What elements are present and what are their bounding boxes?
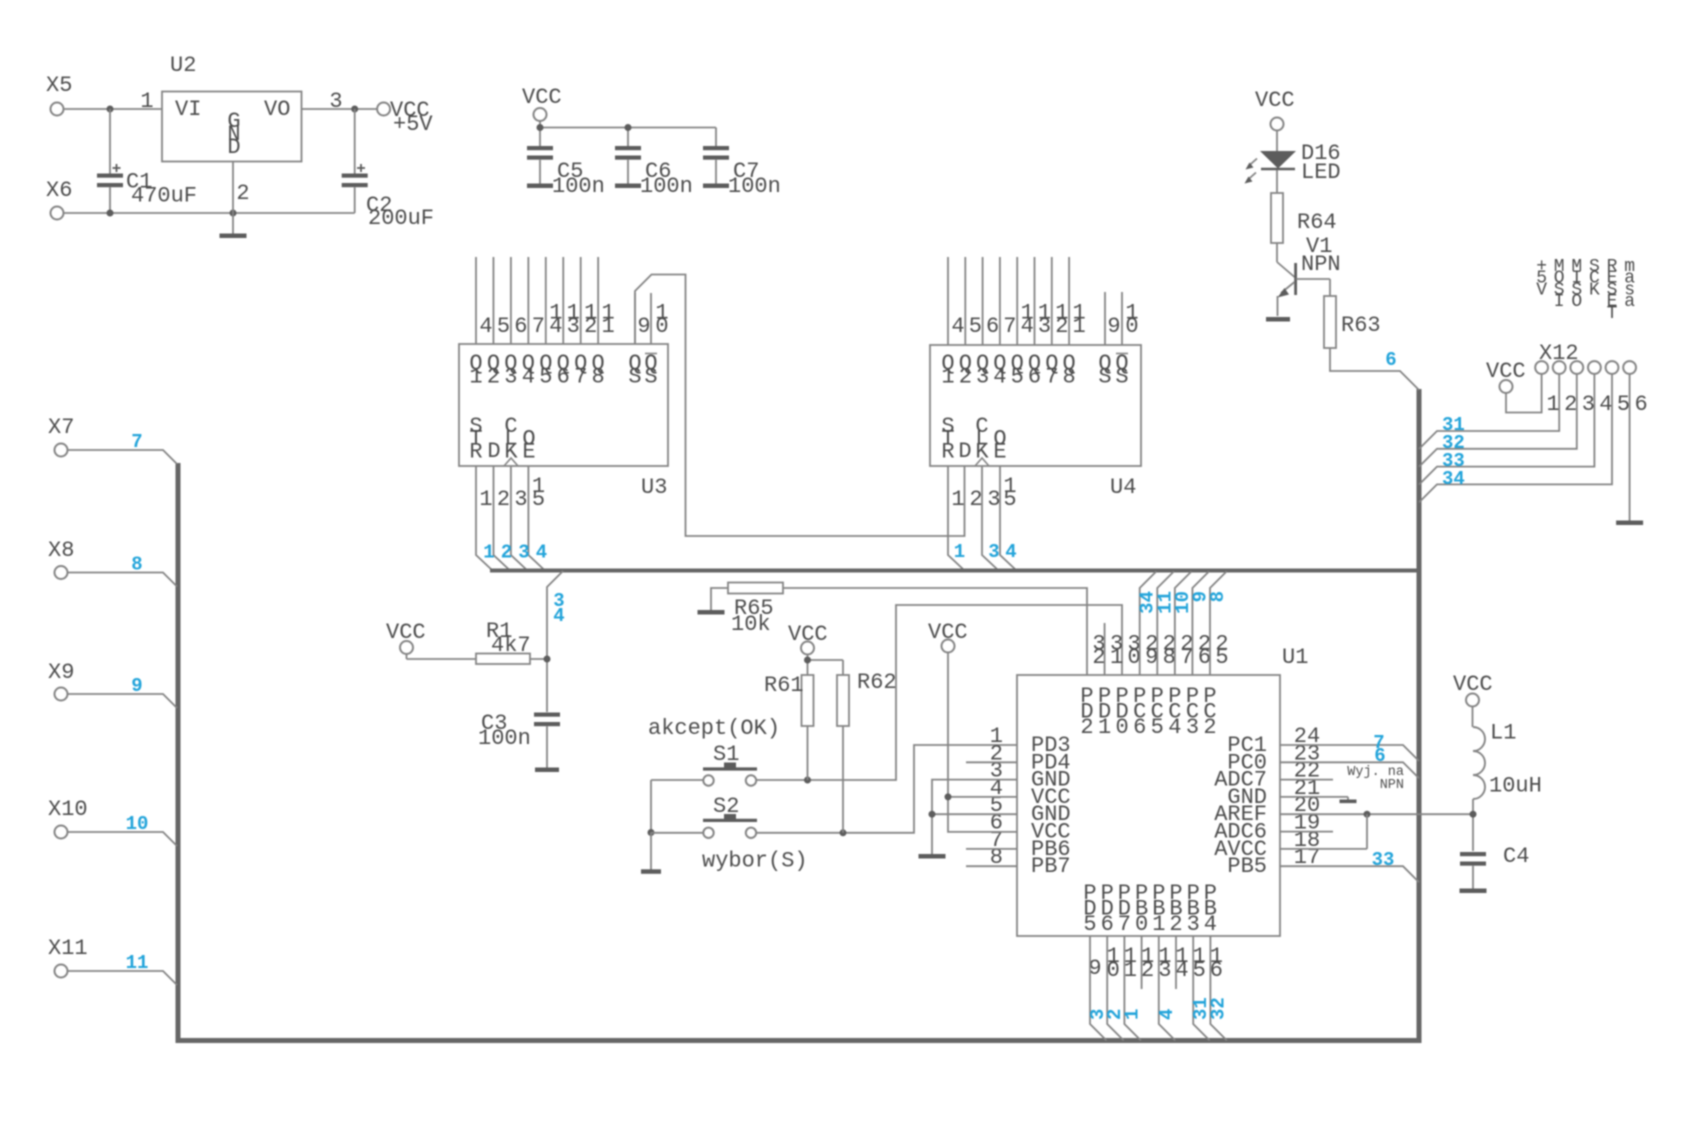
R62 label [857, 670, 897, 695]
svg-text:4: 4 [553, 605, 564, 627]
net label 2 at U3 [501, 542, 512, 564]
svg-text:3: 3 [514, 487, 527, 512]
wire X12 pin 3 net 32 [1419, 374, 1577, 467]
U1 pin 19 stub [1280, 831, 1333, 833]
U3 pin number 9 [637, 314, 650, 339]
pin number 1 of U2 [140, 89, 153, 114]
switch S2 label [713, 794, 739, 819]
svg-text:2: 2 [1141, 958, 1154, 983]
power port VCC at R61 [788, 622, 828, 660]
U4 CLK edge marker [975, 458, 989, 466]
svg-text:V: V [1536, 280, 1547, 300]
svg-text:wybor(S): wybor(S) [702, 849, 808, 874]
wire U1 pin 28 to bus [1157, 572, 1174, 676]
wire X8 to bus net 8 [68, 573, 178, 587]
wire X12 pin 6 to ground [1629, 374, 1631, 521]
U4 pin number 9 [1107, 314, 1120, 339]
svg-text:PB5: PB5 [1227, 854, 1267, 879]
svg-text:10: 10 [126, 813, 149, 835]
net label 10 at X10 [126, 813, 149, 835]
net label 34 at X12 [1442, 468, 1465, 490]
net label 11 at U1 top [1154, 591, 1176, 614]
label wybor(S) [702, 849, 808, 874]
net label 1 at U1 bottom [1121, 1009, 1143, 1020]
connector X6 [46, 178, 72, 220]
U1 right pin numbers [1294, 724, 1320, 870]
svg-text:2: 2 [1564, 392, 1577, 417]
wire U1 pin 27 to bus [1175, 572, 1192, 676]
wire VCC to X12 pin 1 [1506, 374, 1542, 413]
inductor L1 [1473, 727, 1485, 799]
wire R64 to V1 collector [1277, 243, 1295, 277]
svg-text:VO: VO [264, 97, 290, 122]
U4 bottom pin numbers [951, 474, 1016, 512]
svg-text:3: 3 [1038, 314, 1051, 339]
net label 2 at U1 bottom [1104, 1009, 1126, 1020]
wire U1 PC0 to bus net 6 [1280, 762, 1419, 778]
svg-text:7: 7 [1118, 912, 1131, 937]
C6 label [645, 159, 671, 184]
svg-text:R62: R62 [857, 670, 897, 695]
svg-text:R64: R64 [1297, 210, 1337, 235]
wire U1 PB5 to bus net 33 [1280, 866, 1419, 882]
svg-text:1: 1 [1110, 645, 1123, 670]
capacitor C3 [534, 713, 560, 769]
U3 label QS-bar [644, 351, 657, 390]
svg-text:3: 3 [988, 541, 999, 563]
switch S2 [703, 814, 757, 838]
svg-text:1: 1 [1546, 392, 1559, 417]
wire U1 pin 11 to bottom bus [1124, 936, 1141, 1041]
svg-text:X9: X9 [48, 660, 74, 685]
svg-text:3: 3 [987, 487, 1000, 512]
net label 4 at C3 tap [553, 605, 564, 627]
V1 type NPN [1301, 252, 1341, 277]
wire U3 STR to bus [476, 466, 492, 570]
svg-text:0: 0 [1128, 645, 1141, 670]
label Wyj. na NPN [1347, 765, 1404, 793]
X12 pin labels +5V MOSI MISO SCK RESET masa [1536, 257, 1635, 324]
U4 label QS [1098, 351, 1111, 390]
svg-text:LED: LED [1301, 160, 1341, 185]
U1 top pin names [1080, 684, 1216, 740]
svg-text:NPN: NPN [1380, 778, 1404, 793]
net label 33 at PB5 [1372, 849, 1395, 871]
wire U1 pin 13 to bottom bus [1159, 936, 1176, 1041]
junction S1/R61 [804, 777, 811, 784]
junction R1/C3 [544, 656, 551, 663]
svg-text:X10: X10 [48, 797, 88, 822]
bus horizontal middle [490, 569, 1422, 573]
svg-text:4: 4 [1599, 392, 1612, 417]
resistor R62 [837, 675, 849, 726]
svg-text:5: 5 [969, 314, 982, 339]
wire U1 AREF to L1/C4 node [1280, 813, 1473, 815]
resistor R64 [1271, 193, 1283, 243]
wire R63 to bus net 6 [1330, 348, 1419, 390]
svg-text:4: 4 [951, 314, 964, 339]
resistor R63 [1324, 296, 1336, 348]
wire bus tap to R1/C3 node [547, 571, 563, 712]
wire R1 to node [530, 658, 547, 660]
bus vertical right [1417, 389, 1422, 1040]
svg-text:100n: 100n [728, 174, 781, 199]
U2 pin name GND [227, 109, 240, 160]
net label 1 at U3 [483, 542, 494, 564]
resistor R61 [802, 675, 814, 726]
U1 top pin numbers [1092, 632, 1228, 671]
wire U3 QS to U4 D [635, 275, 965, 537]
U4 body [930, 345, 1141, 466]
svg-text:4: 4 [1156, 1009, 1178, 1020]
wire U4 STR to bus [948, 466, 964, 570]
wire U1 pin 25 to bus [1210, 572, 1227, 676]
svg-text:D: D [958, 439, 971, 464]
junction L1/C4/AREF [1470, 811, 1477, 818]
svg-text:2: 2 [1169, 912, 1182, 937]
U3 top pin numbers [479, 301, 614, 340]
U3 pin QS stub wire [634, 293, 636, 344]
svg-text:8: 8 [1163, 645, 1176, 670]
U1 body [1017, 675, 1280, 936]
L1 label [1490, 721, 1516, 746]
U3 pin QS' stub wire [650, 293, 652, 344]
svg-text:3: 3 [567, 314, 580, 339]
wire U1 pin 15 to bottom bus [1193, 936, 1210, 1041]
D16 label [1301, 141, 1341, 166]
wire X7 to bus net 7 [68, 450, 178, 464]
small ground at U1 pin 21 [1340, 800, 1357, 804]
wire AVCC branch [1280, 814, 1367, 849]
C3 value 100n [478, 726, 531, 751]
wire U3 CLK to bus [511, 466, 527, 570]
junction S1/S2 ground leg [648, 829, 655, 836]
svg-text:4: 4 [1021, 314, 1034, 339]
net label 9 at U1 top [1189, 591, 1211, 602]
wire U1 GND pins 3,5 [932, 780, 1017, 855]
X12 label [1539, 341, 1579, 366]
svg-text:7: 7 [574, 365, 587, 390]
svg-text:4: 4 [993, 365, 1006, 390]
junction GND/pin5 [929, 811, 936, 818]
svg-text:I: I [1554, 292, 1565, 312]
junction VO/C2 [351, 106, 358, 113]
pin number 3 of U2 [329, 89, 342, 114]
connector X5 [46, 73, 72, 116]
U4 pin QS' stub wire [1121, 292, 1123, 345]
power port VCC at U1 [928, 620, 968, 660]
svg-text:6: 6 [1101, 912, 1114, 937]
svg-text:1: 1 [140, 89, 153, 114]
U1 pin 8 stub [966, 865, 1017, 867]
U2 pin name VI [175, 97, 201, 122]
wire S1 left to ground leg [651, 780, 703, 833]
connector X10 [48, 797, 88, 839]
svg-text:VCC: VCC [1255, 88, 1295, 113]
power port VCC at R1 [386, 620, 426, 659]
svg-text:9: 9 [1145, 645, 1158, 670]
svg-text:5: 5 [497, 314, 510, 339]
svg-text:3: 3 [976, 365, 989, 390]
svg-text:2: 2 [959, 365, 972, 390]
svg-text:0: 0 [1107, 958, 1120, 983]
U4 input labels STR D CLK OE [941, 414, 1006, 464]
net label 11 at X11 [126, 952, 149, 974]
svg-text:4: 4 [536, 542, 547, 564]
svg-text:U2: U2 [170, 53, 196, 78]
net label 32 at X12 [1442, 432, 1465, 454]
V1 label [1306, 234, 1332, 259]
wire X11 to bus net 11 [68, 971, 178, 985]
svg-text:4: 4 [1204, 912, 1217, 937]
U1 pin 14 stub [1175, 936, 1177, 989]
svg-text:2: 2 [1203, 715, 1216, 740]
svg-text:S: S [628, 365, 641, 390]
wire U1 pin 21 GND [1280, 797, 1348, 800]
svg-text:akcept(OK): akcept(OK) [648, 716, 780, 741]
svg-text:470uF: 470uF [131, 184, 197, 209]
power port VCC at X12 [1486, 359, 1526, 393]
U4 label QS-bar [1115, 351, 1128, 390]
wire U3 D to bus [494, 466, 510, 570]
U3 pin number 10 [655, 301, 668, 340]
wire X10 to bus net 10 [68, 832, 178, 846]
wires U4 outputs Q1-Q8 [948, 257, 1069, 345]
X12 pin numbers [1546, 392, 1647, 417]
switch S1 [703, 763, 757, 786]
svg-text:R61: R61 [764, 673, 804, 698]
junction VCC/C5 [537, 124, 544, 131]
svg-text:3: 3 [504, 365, 517, 390]
resistor R65 [728, 583, 783, 594]
capacitor C1 [97, 109, 123, 213]
wire X12 pin 4 net 33 [1419, 374, 1594, 485]
wire V1 emitter to ground [1277, 296, 1279, 316]
wire VCC to R1 [407, 658, 477, 660]
power port VCC for C5-C7 [522, 85, 562, 121]
ground below S1/S2 [641, 869, 661, 874]
net label 6 at PC0 [1374, 745, 1385, 767]
R65 label [734, 596, 774, 621]
svg-text:L1: L1 [1490, 721, 1516, 746]
svg-text:U4: U4 [1110, 475, 1136, 500]
net label 7 at X7 [131, 431, 142, 453]
ground below C6 [615, 184, 641, 189]
wire ground leg down [650, 833, 652, 871]
svg-text:100n: 100n [552, 174, 605, 199]
U1 bottom pin numbers [1088, 944, 1223, 983]
svg-text:1: 1 [1121, 1009, 1143, 1020]
U3 label QS [628, 351, 641, 390]
svg-text:6: 6 [1028, 365, 1041, 390]
svg-text:34: 34 [1442, 468, 1465, 490]
svg-text:5: 5 [1151, 715, 1164, 740]
junction VCC/R61 [804, 657, 811, 664]
capacitor C5 [527, 146, 553, 184]
power port VCC +5V [377, 98, 433, 137]
U1 pin 2 stub [966, 761, 1017, 763]
LED D16 [1245, 151, 1297, 184]
C7 label [733, 159, 759, 184]
wire U2 GND pin 2 [232, 162, 234, 235]
svg-text:1: 1 [1072, 314, 1085, 339]
U4 pin QS stub wire [1104, 292, 1106, 345]
U1 left pin numbers [990, 724, 1003, 870]
wire U4 OE to bus [1000, 466, 1016, 570]
svg-text:5: 5 [1083, 912, 1096, 937]
capacitor C6 [615, 146, 641, 184]
svg-text:U3: U3 [641, 475, 667, 500]
R61 label [764, 673, 804, 698]
svg-text:3: 3 [1582, 392, 1595, 417]
wire U2 VO to VCC [302, 108, 378, 110]
U1 pin 31 stub [1104, 623, 1106, 675]
U3 output labels Q1-Q8 [469, 351, 604, 390]
C5 value 100n [552, 174, 605, 199]
svg-text:6: 6 [1374, 745, 1385, 767]
U4 output labels Q1-Q8 [941, 351, 1075, 390]
C7 value 100n [728, 174, 781, 199]
wire L1 to node [1472, 799, 1474, 851]
ground below C3 [535, 768, 559, 773]
net label 8 at X8 [131, 554, 142, 576]
C1 label [126, 170, 152, 195]
svg-text:10uH: 10uH [1489, 774, 1542, 799]
svg-text:5: 5 [1011, 365, 1024, 390]
L1 value 10uH [1489, 774, 1542, 799]
U4 pin number 10 [1125, 301, 1138, 340]
svg-text:S: S [1098, 365, 1111, 390]
svg-text:6: 6 [1634, 392, 1647, 417]
svg-text:1: 1 [941, 365, 954, 390]
U3 CLK edge marker [504, 458, 518, 466]
pin number 2 of U2 [236, 181, 249, 206]
svg-text:5: 5 [532, 487, 545, 512]
svg-text:7: 7 [131, 431, 142, 453]
svg-text:5: 5 [1193, 958, 1206, 983]
svg-text:6: 6 [514, 314, 527, 339]
bus vertical left [176, 463, 181, 1043]
svg-text:8: 8 [592, 365, 605, 390]
wire R65 to U1 PD2 [783, 588, 1087, 675]
net label 4 at U4 [1005, 541, 1016, 563]
svg-text:33: 33 [1372, 849, 1395, 871]
svg-text:8: 8 [1062, 365, 1075, 390]
svg-text:1: 1 [954, 541, 965, 563]
net label 10 at U1 top [1172, 591, 1194, 614]
ground below C5 [527, 184, 553, 189]
svg-text:O: O [1571, 292, 1582, 312]
junction S2/R62 [840, 829, 847, 836]
svg-text:R: R [941, 439, 954, 464]
connector X8 [48, 538, 74, 579]
svg-text:8: 8 [131, 554, 142, 576]
wire X9 to bus net 9 [68, 694, 178, 708]
svg-text:X8: X8 [48, 538, 74, 563]
wire VCC rail to C7 [540, 121, 716, 147]
svg-text:2: 2 [501, 542, 512, 564]
wire S2 to U1 PD3 [757, 745, 1018, 833]
svg-text:K: K [504, 439, 518, 464]
svg-text:9: 9 [131, 675, 142, 697]
svg-text:7: 7 [532, 314, 545, 339]
svg-text:PB7: PB7 [1031, 854, 1071, 879]
svg-text:7: 7 [1180, 645, 1193, 670]
wire U1 pin 26 to bus [1192, 572, 1209, 676]
svg-text:2: 2 [969, 487, 982, 512]
svg-text:6: 6 [557, 365, 570, 390]
U2 label [170, 53, 196, 78]
svg-text:4: 4 [1175, 958, 1188, 983]
ground at V1 [1266, 317, 1290, 322]
svg-text:2: 2 [584, 314, 597, 339]
net label 33 at X12 [1442, 450, 1465, 472]
connector X11 [48, 936, 88, 978]
svg-text:4: 4 [549, 314, 562, 339]
U1 label [1282, 645, 1308, 670]
svg-text:2: 2 [497, 487, 510, 512]
junction X6/C1 bottom [107, 210, 114, 217]
wire U1 PC1 to bus net 7 [1280, 745, 1419, 761]
svg-text:4: 4 [522, 365, 535, 390]
svg-text:a: a [1624, 292, 1635, 312]
svg-text:1: 1 [479, 487, 492, 512]
svg-text:S: S [1115, 365, 1128, 390]
svg-text:32: 32 [1207, 997, 1229, 1020]
net label 31 at U1 bottom [1190, 997, 1212, 1020]
net label 8 at U1 top [1207, 591, 1229, 602]
svg-text:5: 5 [1215, 645, 1228, 670]
svg-text:5: 5 [1003, 487, 1016, 512]
net label 34 at U1 top [1137, 591, 1159, 614]
net label 4 at U1 bottom [1156, 1009, 1178, 1020]
label akcept(OK) [648, 716, 780, 741]
R64 label [1297, 210, 1337, 235]
svg-text:0: 0 [1135, 912, 1148, 937]
svg-text:+5V: +5V [393, 112, 433, 137]
U4 label [1110, 475, 1136, 500]
connector X9 [48, 660, 74, 701]
wire U1 pin 29 to bus [1140, 572, 1157, 676]
svg-text:X11: X11 [48, 936, 88, 961]
svg-text:200uF: 200uF [368, 206, 434, 231]
transistor V1 NPN [1278, 263, 1296, 298]
svg-text:NPN: NPN [1301, 252, 1341, 277]
ground below C4 [1460, 889, 1487, 894]
U1 bottom pin names [1083, 881, 1217, 937]
junction X5/C1 [107, 106, 114, 113]
svg-text:4: 4 [1005, 541, 1016, 563]
svg-text:0: 0 [1116, 715, 1129, 740]
U3 input labels STR D CLK OE [469, 414, 535, 464]
svg-text:0: 0 [655, 314, 668, 339]
wire V1 base to R63 [1296, 279, 1330, 296]
svg-text:6: 6 [1210, 958, 1223, 983]
svg-text:2: 2 [236, 181, 249, 206]
svg-text:3: 3 [1158, 958, 1171, 983]
U3 body [459, 344, 668, 466]
svg-text:K: K [1589, 280, 1600, 300]
switch S1 label [713, 742, 739, 767]
svg-text:8: 8 [1207, 591, 1229, 602]
C4 label [1503, 844, 1529, 869]
svg-text:0: 0 [1125, 314, 1138, 339]
svg-text:10k: 10k [731, 612, 771, 637]
power port VCC at D16 [1255, 88, 1295, 152]
wire U4 CLK to bus [982, 466, 998, 570]
wire U1 pin 16 to bottom bus [1210, 936, 1227, 1041]
svg-text:5: 5 [1617, 392, 1630, 417]
